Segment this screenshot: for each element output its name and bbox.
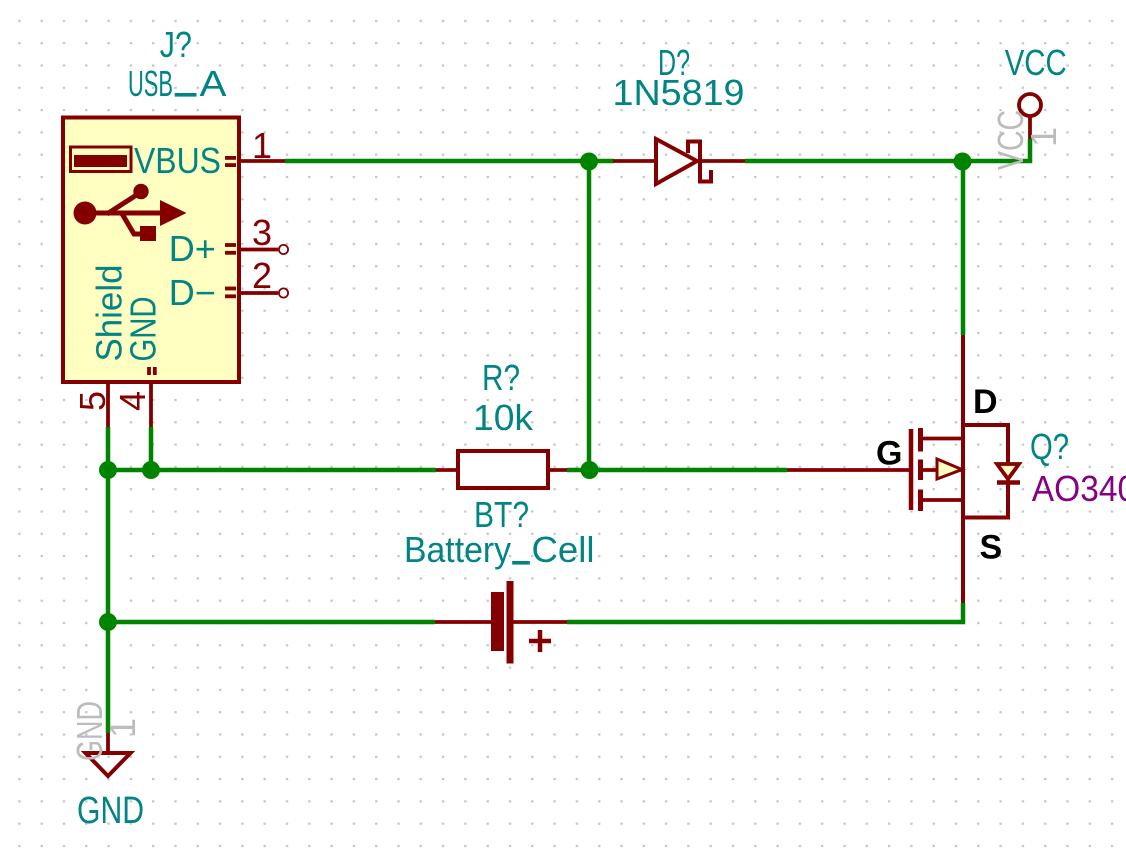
USB trident arrow <box>160 200 187 226</box>
svg-text:5: 5 <box>72 391 113 411</box>
power symbol VCC circle <box>1019 94 1041 116</box>
transistor Q1 channel bar top <box>918 428 923 452</box>
resistor R1 right lead <box>548 468 567 472</box>
svg-text:J?: J? <box>160 24 192 65</box>
svg-text:1: 1 <box>102 718 143 738</box>
svg-text:1N5819: 1N5819 <box>613 72 745 113</box>
battery BT1 right lead <box>513 620 567 624</box>
svg-text:3: 3 <box>252 212 272 253</box>
pin 3 D+ stub <box>240 248 278 252</box>
transistor Q1 gate pin <box>787 468 911 472</box>
svg-text:Battery: Battery <box>404 529 511 570</box>
wire resistor right to gate <box>567 468 787 473</box>
resistor R1 left lead <box>436 468 458 472</box>
battery BT1 plus sign <box>529 630 551 652</box>
junction node shield <box>99 461 117 479</box>
wire VBUS pin1 to diode anode <box>285 159 614 164</box>
pin 3 open end circle <box>279 245 288 254</box>
svg-text:D+: D+ <box>169 228 216 269</box>
transistor Q1 channel bar bottom <box>918 490 923 512</box>
USB trident lower branch <box>121 212 141 234</box>
svg-text:1: 1 <box>1023 127 1064 147</box>
junction node gnd pin4 <box>142 461 160 479</box>
junction node battery left <box>99 613 117 631</box>
pin 4 contact mark <box>147 367 151 375</box>
pin 1 VBUS stub <box>240 159 285 163</box>
svg-text:D−: D− <box>169 272 216 313</box>
svg-text:VCC: VCC <box>1005 42 1067 83</box>
pin 2 D- stub <box>240 291 278 295</box>
pin 5 shield stub <box>106 382 110 427</box>
transistor Q1 body diode triangle <box>997 464 1019 479</box>
svg-text:4: 4 <box>112 391 153 411</box>
wire VCC node to VCC symbol <box>961 139 1030 161</box>
wire shield node down to GND <box>106 470 111 733</box>
USB trident main line <box>85 211 162 216</box>
USB trident big circle <box>74 202 97 225</box>
transistor Q1 gate channel stub <box>921 468 963 472</box>
transistor Q1 body diode bar <box>997 480 1020 485</box>
junction node diode anode <box>580 153 598 171</box>
transistor Q1 source pin <box>961 518 965 603</box>
diode D1 triangle <box>656 139 697 184</box>
USB plug icon inner bar <box>74 155 127 167</box>
svg-text:Cell: Cell <box>532 529 595 570</box>
USB trident lower square <box>140 226 156 241</box>
USB plug icon outer rect <box>71 147 132 172</box>
svg-text:S: S <box>980 529 1003 567</box>
svg-text:R?: R? <box>482 357 520 398</box>
resistor R1 body <box>458 451 548 488</box>
svg-text:D: D <box>973 383 998 421</box>
wire pin5 stub <box>106 427 111 470</box>
transistor Q1 trunk <box>961 425 965 518</box>
transistor Q1 body diode bottom corner <box>961 482 1008 518</box>
pin 1 contact mark <box>225 156 236 160</box>
transistor Q1 drain pin <box>961 335 965 425</box>
svg-text:GND: GND <box>123 297 164 362</box>
pin 3 contact mark <box>225 243 236 247</box>
svg-text:VBUS: VBUS <box>134 140 221 181</box>
junction node VCC <box>954 153 972 171</box>
svg-text:2: 2 <box>252 255 272 296</box>
svg-text:10k: 10k <box>473 397 534 438</box>
svg-text:A: A <box>200 63 227 104</box>
svg-text:USB: USB <box>128 63 173 104</box>
USB trident upper circle <box>133 184 148 199</box>
transistor Q1 drain stub <box>921 437 963 441</box>
svg-text:G: G <box>876 435 902 473</box>
battery BT1 left lead <box>435 620 491 624</box>
power symbol GND stub <box>106 733 110 754</box>
pin 2 open end circle <box>279 288 288 297</box>
wire battery left <box>108 620 435 625</box>
transistor Q1 source stub <box>921 498 963 502</box>
wire VCC node down to Q1 drain <box>961 159 966 335</box>
junction node resistor right <box>581 461 599 479</box>
transistor Q1 channel bar mid <box>918 460 923 481</box>
wire diode anode node down to resistor node <box>587 161 592 470</box>
svg-text:AO3401: AO3401 <box>1032 468 1126 509</box>
transistor Q1 arrow <box>937 459 962 479</box>
diode D1 anode lead <box>613 159 656 163</box>
transistor Q1 gate bar <box>909 429 914 510</box>
wire battery right to Q1 source <box>567 603 963 622</box>
wire diode cathode to VCC node <box>745 159 963 164</box>
diode D1 cathode lead <box>700 159 745 163</box>
battery BT1 short plate <box>491 592 504 651</box>
pin 2 contact mark <box>225 287 236 291</box>
pin 4 gnd stub <box>149 382 153 427</box>
power symbol GND triangle <box>86 753 131 776</box>
wire pin4 stub <box>149 427 154 470</box>
USB trident upper branch <box>107 194 138 214</box>
svg-text:GND: GND <box>77 790 144 832</box>
svg-text:1: 1 <box>252 125 272 166</box>
diode D1 schottky bar <box>688 142 711 182</box>
transistor Q1 body diode top corner <box>961 425 1008 464</box>
wire USB GND/Shield to resistor left <box>108 468 436 473</box>
power symbol VCC pin <box>1028 117 1032 140</box>
svg-text:Q?: Q? <box>1030 426 1069 467</box>
connector J1 USB_A body <box>63 118 239 383</box>
battery BT1 long plate <box>507 581 514 664</box>
